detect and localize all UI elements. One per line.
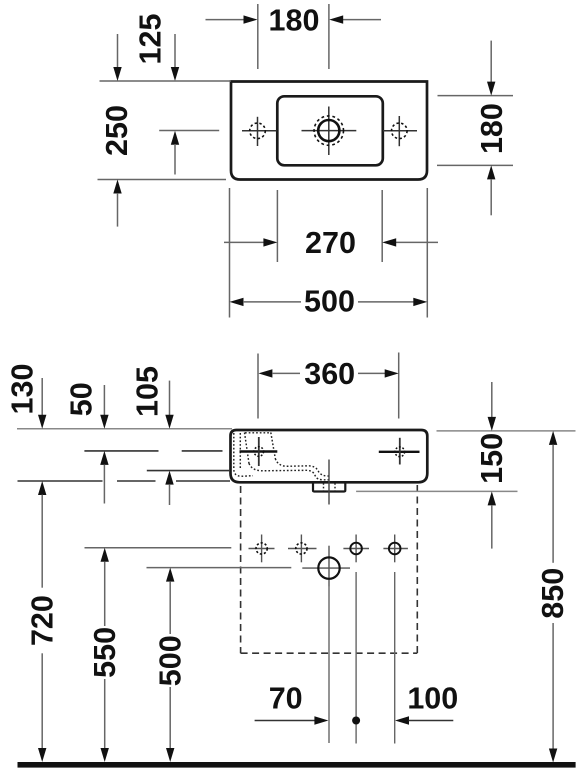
svg-text:125: 125	[134, 14, 168, 65]
svg-text:720: 720	[25, 595, 59, 646]
svg-text:180: 180	[269, 3, 320, 37]
svg-text:105: 105	[131, 366, 165, 417]
svg-text:250: 250	[100, 105, 134, 156]
svg-text:500: 500	[304, 285, 355, 319]
svg-text:550: 550	[88, 627, 122, 678]
svg-text:360: 360	[304, 357, 355, 391]
svg-text:150: 150	[475, 433, 509, 484]
svg-text:70: 70	[269, 681, 303, 715]
svg-text:500: 500	[154, 635, 188, 686]
svg-text:50: 50	[65, 382, 99, 416]
svg-text:850: 850	[536, 568, 570, 619]
svg-text:270: 270	[305, 226, 356, 260]
svg-text:180: 180	[475, 103, 509, 154]
svg-text:130: 130	[6, 364, 40, 415]
svg-text:100: 100	[407, 681, 458, 715]
